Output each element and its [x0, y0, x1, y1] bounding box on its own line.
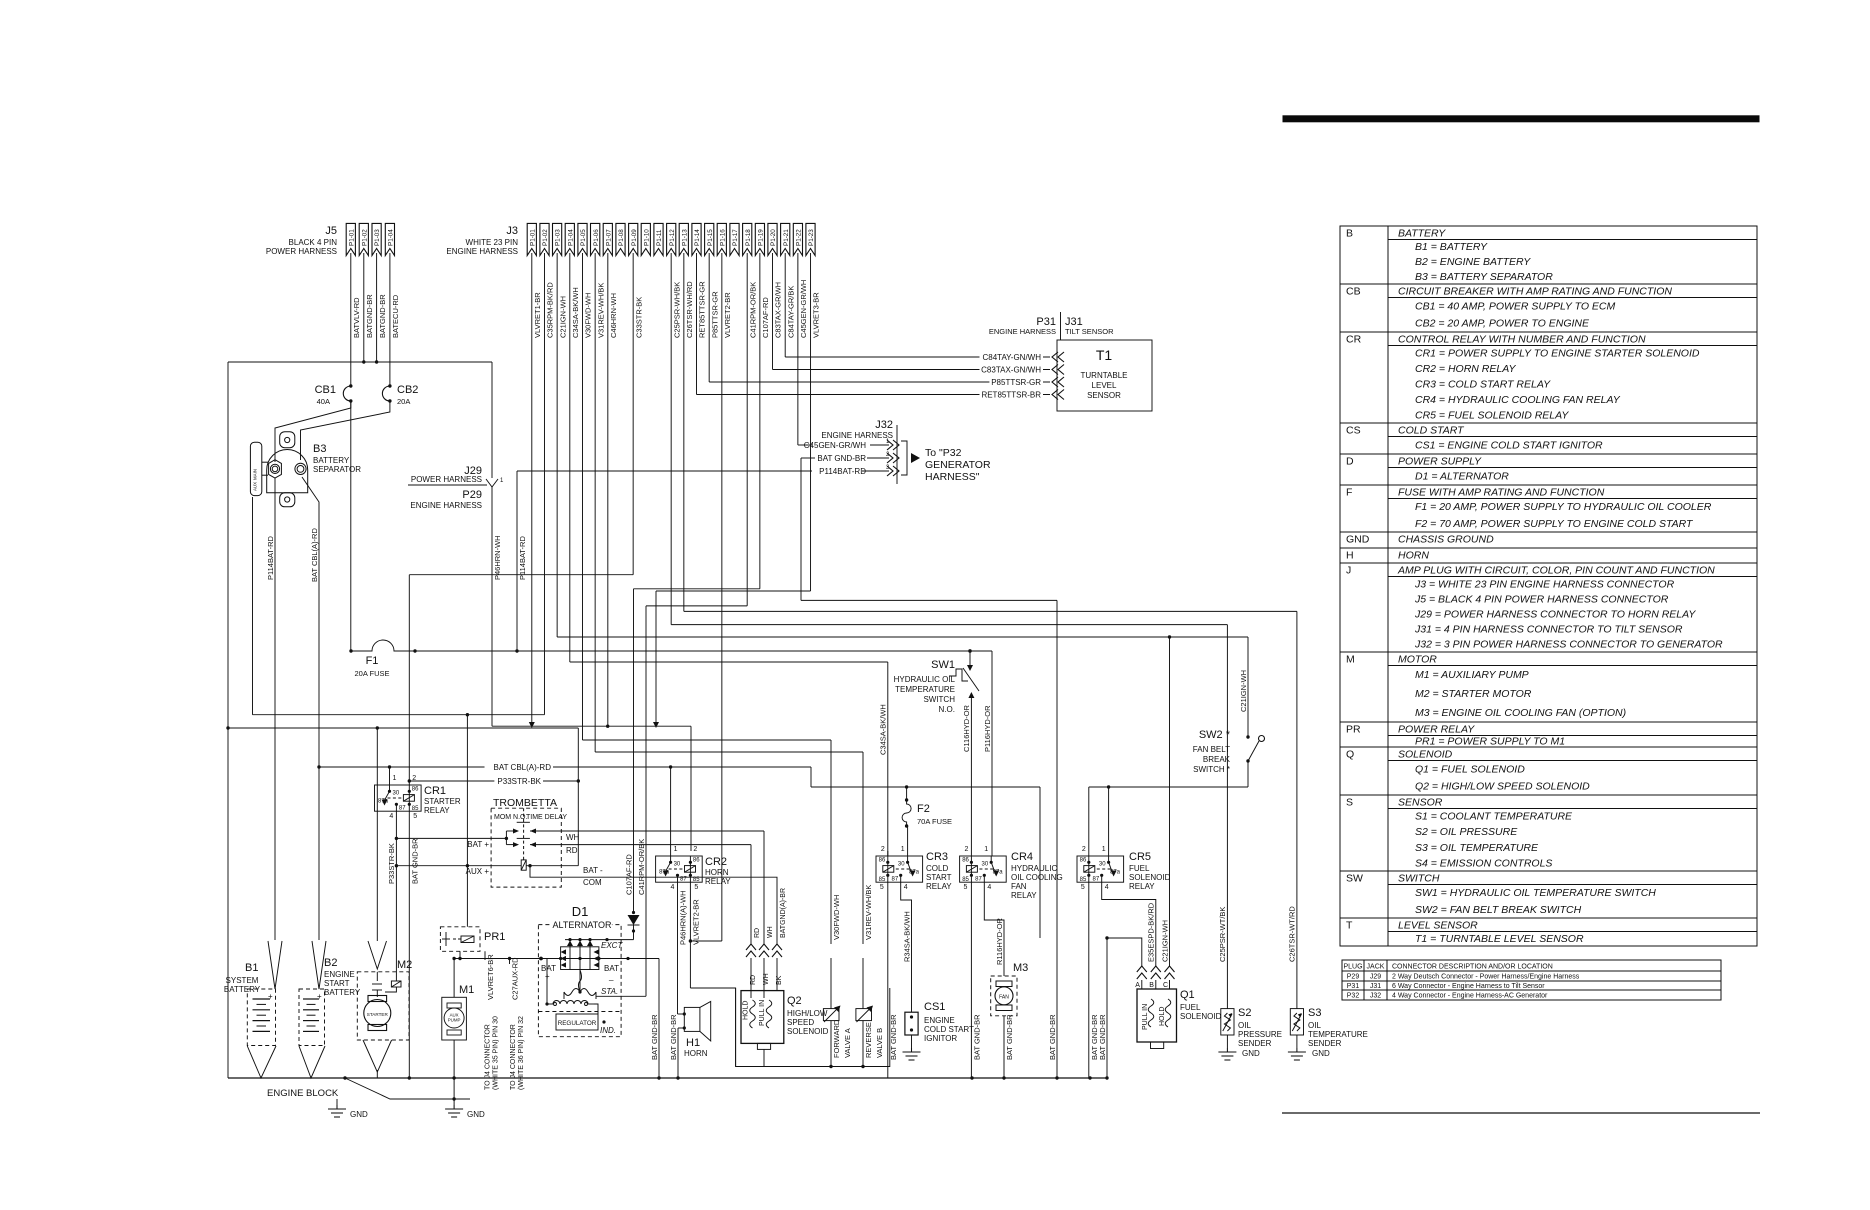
P31/J31 divider [1060, 312, 1062, 340]
svg-text:B1: B1 [245, 962, 258, 974]
wire CR5 pin5 to bus [1088, 882, 1090, 1078]
svg-text:WH: WH [566, 833, 580, 842]
svg-text:STA.: STA. [601, 987, 618, 996]
svg-text:To "P32: To "P32 [925, 447, 962, 459]
svg-text:S3 = OIL TEMPERATURE: S3 = OIL TEMPERATURE [1415, 842, 1539, 854]
svg-text:C41RPM-OR/BK: C41RPM-OR/BK [637, 839, 646, 895]
svg-text:P116HYD-OR: P116HYD-OR [983, 705, 992, 752]
harness chevrons RD WH BK [746, 944, 756, 950]
svg-text:FAN: FAN [999, 995, 1009, 1001]
cold start ignitor CS1 [905, 1012, 918, 1035]
sender S2 [1221, 1009, 1234, 1035]
svg-text:1: 1 [901, 846, 905, 853]
svg-text:P114BAT-RD: P114BAT-RD [819, 467, 866, 476]
wire left vertical to ground bus [227, 362, 229, 1078]
svg-text:C45GEN-GR/WH: C45GEN-GR/WH [804, 441, 866, 450]
svg-text:R34SA-BK/WH: R34SA-BK/WH [902, 911, 911, 962]
wire C83TAX-GN/WH to T1 [772, 253, 774, 370]
svg-text:C: C [1163, 982, 1168, 989]
svg-text:C34SA-BK/WH: C34SA-BK/WH [879, 704, 888, 755]
svg-text:D: D [1346, 456, 1354, 468]
svg-text:85: 85 [412, 806, 419, 812]
svg-text:5: 5 [963, 884, 967, 891]
wire F1 to SW1/CR4 (C107/P116 feed) [415, 650, 992, 652]
svg-text:BATTERY: BATTERY [313, 456, 350, 465]
svg-text:CB2 = 20 AMP, POWER TO ENGINE: CB2 = 20 AMP, POWER TO ENGINE [1415, 318, 1590, 330]
svg-text:20A FUSE: 20A FUSE [354, 669, 389, 678]
svg-text:P1-07: P1-07 [605, 229, 612, 246]
wire BAT to F2 area [810, 767, 812, 787]
svg-text:85: 85 [962, 877, 969, 883]
svg-text:C35RPM-BK/RD: C35RPM-BK/RD [546, 282, 555, 338]
svg-text:B: B [1149, 982, 1154, 989]
J32 bracket [901, 441, 907, 475]
svg-text:30: 30 [393, 790, 400, 796]
svg-text:MOTOR: MOTOR [1398, 654, 1437, 666]
wire J5-3 drop [376, 253, 378, 362]
J5 pin P1-01 [346, 223, 355, 255]
svg-text:HORN: HORN [684, 1049, 708, 1058]
wire J5-2 drop [363, 253, 365, 362]
svg-text:BAT GND-BR: BAT GND-BR [1098, 1014, 1107, 1060]
J32 wire C45GEN-GR/WH [887, 440, 893, 450]
wire C33STR-BK (p9) to CR1 coil [632, 253, 634, 575]
svg-text:86: 86 [1080, 857, 1087, 863]
svg-text:IGNITOR: IGNITOR [924, 1034, 957, 1043]
J3 pin P1-20 [768, 223, 777, 255]
svg-text:HORN: HORN [1398, 550, 1429, 562]
svg-text:COLD: COLD [926, 864, 948, 873]
svg-text:SWITCH: SWITCH [1398, 873, 1440, 885]
svg-text:CIRCUIT BREAKER WITH AMP RATIN: CIRCUIT BREAKER WITH AMP RATING AND FUNC… [1398, 286, 1672, 298]
svg-text:C107AF-RD: C107AF-RD [624, 854, 633, 895]
AUX+ wire [396, 865, 521, 867]
wire CR5 pin1 up [1108, 787, 1110, 856]
svg-text:J29 = POWER HARNESS CONNECTOR: J29 = POWER HARNESS CONNECTOR TO HORN RE… [1414, 608, 1696, 620]
wire CB1 down to F1 line [350, 401, 352, 651]
svg-text:GND: GND [350, 1110, 368, 1119]
svg-text:VLVRET2-BR: VLVRET2-BR [723, 292, 732, 338]
svg-text:CR1 = POWER SUPPLY TO ENGINE S: CR1 = POWER SUPPLY TO ENGINE STARTER SOL… [1415, 347, 1700, 359]
contact bracket [505, 831, 507, 845]
svg-text:BATGND(A)-BR: BATGND(A)-BR [780, 888, 787, 938]
motor M2 starter [357, 972, 409, 1040]
svg-text:P1-06: P1-06 [593, 229, 600, 246]
wire M1 feed [453, 959, 455, 998]
svg-text:AMP PLUG WITH CIRCUIT, COLOR,: AMP PLUG WITH CIRCUIT, COLOR, PIN COUNT … [1397, 565, 1715, 577]
J3 pin P1-21 [781, 223, 790, 255]
svg-text:CR1: CR1 [424, 785, 446, 797]
svg-text:CONNECTOR DESCRIPTION AND/OR L: CONNECTOR DESCRIPTION AND/OR LOCATION [1392, 964, 1553, 971]
wire down to CR2 pin2 [690, 726, 692, 851]
BAT+ wire [396, 837, 506, 839]
wire down to TROMBETTA BAT- [577, 728, 579, 866]
svg-text:M1 = AUXILIARY PUMP: M1 = AUXILIARY PUMP [1415, 669, 1529, 681]
wire R34SA-BK/WH to CS1 [901, 882, 912, 1012]
wire P114BAT-RD to J32 [517, 470, 812, 472]
svg-text:GND: GND [1242, 1049, 1260, 1058]
svg-text:SYSTEM: SYSTEM [226, 976, 259, 985]
svg-text:P1-01: P1-01 [348, 229, 355, 246]
svg-text:FUEL: FUEL [1129, 864, 1150, 873]
svg-text:P1-22: P1-22 [796, 229, 803, 246]
arrow to generator harness [911, 453, 920, 463]
solenoid Q1 fuel [1137, 989, 1177, 1042]
svg-text:SWITCH: SWITCH [923, 695, 955, 704]
svg-text:CR4 = HYDRAULIC COOLING FAN RE: CR4 = HYDRAULIC COOLING FAN RELAY [1415, 394, 1621, 406]
svg-text:J: J [1346, 565, 1351, 577]
circuit breaker CB1 [350, 253, 352, 386]
J3 pin P1-02 [540, 223, 549, 255]
svg-text:R116HYD-OR: R116HYD-OR [995, 917, 1004, 965]
svg-text:CHASSIS GROUND: CHASSIS GROUND [1398, 534, 1494, 546]
svg-text:V31REV-WH/BK: V31REV-WH/BK [864, 885, 873, 940]
svg-text:D1 = ALTERNATOR: D1 = ALTERNATOR [1415, 470, 1509, 482]
tilt sensor T1 [1057, 340, 1152, 411]
wire M1 to GND [453, 1040, 455, 1105]
svg-text:S1 = COOLANT TEMPERATURE: S1 = COOLANT TEMPERATURE [1415, 811, 1573, 823]
svg-text:M3 = ENGINE OIL COOLING FAN (O: M3 = ENGINE OIL COOLING FAN (OPTION) [1415, 707, 1626, 719]
wire VLVRET1-BR (p1) down to L728 [531, 253, 533, 722]
svg-text:SW1 = HYDRAULIC OIL TEMPERATUR: SW1 = HYDRAULIC OIL TEMPERATURE SWITCH [1415, 887, 1656, 899]
svg-text:GND: GND [1312, 1049, 1330, 1058]
wire starter feed [376, 728, 378, 941]
svg-text:M2: M2 [397, 959, 412, 971]
wire CB1 to B3 MAIN [275, 401, 351, 462]
svg-text:C45GEN-GR/WH: C45GEN-GR/WH [799, 280, 808, 338]
svg-text:P1-04: P1-04 [388, 229, 395, 246]
svg-text:70A FUSE: 70A FUSE [917, 817, 952, 826]
svg-text:CR2: CR2 [705, 856, 727, 868]
J32 wire P114BAT-RD [887, 466, 893, 476]
svg-text:30: 30 [1099, 861, 1106, 867]
wire to PR1 coil [466, 715, 468, 927]
svg-text:6 Way Connector - Engine Harne: 6 Way Connector - Engine Harness to Tilt… [1392, 983, 1545, 990]
svg-text:COLD START: COLD START [1398, 425, 1465, 437]
stator winding [579, 970, 581, 993]
chevron B1 [268, 941, 282, 989]
svg-text:PUMP: PUMP [448, 1018, 461, 1023]
svg-text:VALVE A: VALVE A [843, 1028, 852, 1058]
svg-text:V30FWD-WH: V30FWD-WH [584, 293, 593, 338]
svg-text:F2: F2 [917, 803, 930, 815]
wire PR1 to BAT+ line [459, 951, 461, 958]
svg-text:S4 = EMISSION CONTROLS: S4 = EMISSION CONTROLS [1415, 857, 1552, 869]
svg-text:B3 = BATTERY SEPARATOR: B3 = BATTERY SEPARATOR [1415, 271, 1553, 283]
wire VLVRET3-BR (p23) down to L728 [810, 253, 812, 591]
starter motor circle [364, 1000, 391, 1027]
svg-text:P29: P29 [1347, 974, 1360, 981]
Q1 pin chevrons A B C [1137, 966, 1147, 972]
J3 pin P1-10 [641, 223, 650, 255]
svg-text:(WHITE 36 PIN) PIN 32: (WHITE 36 PIN) PIN 32 [518, 1016, 525, 1090]
svg-text:N.O.: N.O. [939, 705, 955, 714]
svg-text:VLVRET6-BR: VLVRET6-BR [486, 954, 495, 1000]
svg-text:P1-17: P1-17 [732, 229, 739, 246]
svg-text:VLVRET1-BR: VLVRET1-BR [533, 292, 542, 338]
J3 pin P1-15 [705, 223, 714, 255]
svg-text:HARNESS": HARNESS" [925, 471, 980, 483]
wire V31REV-WH/BK (p6) to reverse valve [594, 253, 596, 752]
svg-text:MAIN: MAIN [253, 469, 258, 480]
svg-text:BAT GND-BR: BAT GND-BR [1048, 1014, 1057, 1060]
svg-text:CB: CB [1346, 286, 1361, 298]
svg-text:P1-18: P1-18 [745, 229, 752, 246]
wire VLVRET2 to Q2 loop [690, 988, 735, 1067]
svg-text:HYDRAULIC: HYDRAULIC [1011, 864, 1057, 873]
EXCT bus [565, 939, 634, 941]
svg-text:TILT SENSOR: TILT SENSOR [1065, 327, 1114, 336]
svg-text:PR1 = POWER SUPPLY TO M1: PR1 = POWER SUPPLY TO M1 [1415, 735, 1565, 747]
chevron above M2 [368, 941, 387, 969]
svg-text:CR3 = COLD START RELAY: CR3 = COLD START RELAY [1415, 378, 1551, 390]
svg-text:STARTER: STARTER [424, 797, 461, 806]
svg-text:M3: M3 [1013, 962, 1028, 974]
wire horn bottom [678, 1027, 684, 1029]
svg-text:1: 1 [674, 846, 678, 853]
J5 pin P1-03 [372, 223, 381, 255]
wire STA [596, 995, 646, 997]
svg-text:B: B [1346, 228, 1353, 240]
svg-text:F: F [1346, 487, 1352, 499]
svg-text:4: 4 [671, 884, 675, 891]
wire CR2 pin5 VLVRET2-BR [689, 882, 691, 988]
svg-text:ENGINE: ENGINE [924, 1016, 955, 1025]
J3 pin P1-05 [578, 223, 587, 255]
svg-text:P1-03: P1-03 [555, 229, 562, 246]
wire C107AF-RD (p19) to D1 EXCT diode [759, 253, 761, 589]
svg-text:BATTERY: BATTERY [1398, 228, 1446, 240]
svg-text:S2: S2 [1238, 1007, 1251, 1019]
L600 BAT GND-BR to bus [801, 599, 1057, 601]
wire BAT CBL(A)-RD B3 to B2 [302, 477, 319, 940]
svg-text:GENERATOR: GENERATOR [925, 459, 991, 471]
svg-text:J32: J32 [1370, 993, 1381, 1000]
J3 pin P1-16 [717, 223, 726, 255]
svg-text:CR5: CR5 [1129, 851, 1151, 863]
svg-text:C83TAX-GN/WH: C83TAX-GN/WH [981, 366, 1041, 375]
svg-text:MOM N.O.: MOM N.O. [494, 814, 527, 821]
svg-text:RD: RD [566, 846, 578, 855]
wire CR1 pin1 to BAT CBL [389, 767, 391, 785]
svg-text:C83TAX-GR/WH: C83TAX-GR/WH [774, 282, 783, 338]
wire from L362 to J29 [491, 362, 493, 478]
svg-text:5: 5 [694, 884, 698, 891]
svg-text:P85TTSR-GR: P85TTSR-GR [991, 378, 1041, 387]
svg-text:SWITCH *: SWITCH * [1193, 765, 1230, 774]
svg-text:RD: RD [754, 928, 761, 938]
engine block line [345, 1078, 470, 1099]
svg-text:4: 4 [904, 884, 908, 891]
starter solenoid coil [391, 981, 401, 987]
svg-text:5: 5 [1081, 884, 1085, 891]
svg-text:TEMPERATURE: TEMPERATURE [1308, 1030, 1368, 1039]
svg-text:P1-08: P1-08 [618, 229, 625, 246]
J3 pin P1-19 [755, 223, 764, 255]
svg-text:H1: H1 [686, 1037, 700, 1049]
svg-text:CS1: CS1 [924, 1001, 945, 1013]
svg-text:SOLENOID: SOLENOID [1129, 873, 1171, 882]
svg-text:BAT GND-BR: BAT GND-BR [411, 838, 420, 884]
wire C116HYD-OR from SW1 [970, 693, 972, 856]
fuse F1 20A [351, 640, 415, 651]
svg-text:FUSE WITH AMP RATING AND FUNCT: FUSE WITH AMP RATING AND FUNCTION [1398, 487, 1605, 499]
Q2 bottom loop [736, 988, 890, 1067]
svg-text:PULL IN: PULL IN [759, 1000, 766, 1026]
chevron below B1 [247, 1046, 276, 1078]
svg-text:P1-20: P1-20 [770, 229, 777, 246]
svg-text:4 Way Connector - Engine Harne: 4 Way Connector - Engine Harness-AC Gene… [1392, 993, 1548, 1000]
wire R116HYD-OR to M3 [984, 882, 1004, 976]
svg-text:J5 = BLACK 4 PIN POWER HARNESS: J5 = BLACK 4 PIN POWER HARNESS CONNECTOR [1414, 593, 1669, 605]
chevron below B2 [299, 1046, 325, 1078]
svg-text:C25PSR-WH/BK: C25PSR-WH/BK [672, 282, 681, 338]
reverse valve B [856, 1009, 872, 1021]
svg-text:TROMBETTA: TROMBETTA [493, 797, 557, 809]
svg-text:F1 = 20 AMP, POWER SUPPLY TO H: F1 = 20 AMP, POWER SUPPLY TO HYDRAULIC O… [1415, 501, 1712, 513]
svg-text:C27AUX-RD: C27AUX-RD [511, 957, 520, 1000]
svg-text:T1: T1 [1096, 347, 1113, 363]
regulator [545, 1002, 548, 1005]
svg-text:P1-10: P1-10 [643, 229, 650, 246]
svg-text:85: 85 [879, 877, 886, 883]
svg-text:P1-21: P1-21 [783, 229, 790, 246]
svg-text:P1-02: P1-02 [542, 229, 549, 246]
svg-text:2: 2 [1082, 846, 1086, 853]
wire BATGND bus L362 [228, 361, 492, 363]
svg-text:RET85TTSR-BR: RET85TTSR-BR [981, 391, 1041, 400]
J29 arrow [486, 479, 498, 487]
svg-text:1: 1 [984, 846, 988, 853]
svg-text:T: T [1346, 920, 1353, 932]
J3 pin P1-12 [667, 223, 676, 255]
svg-text:P1-19: P1-19 [758, 229, 765, 246]
ground bus [228, 1077, 1107, 1079]
circuit breaker CB2 [389, 253, 391, 386]
svg-text:OIL: OIL [1238, 1021, 1251, 1030]
svg-text:RELAY: RELAY [1129, 882, 1155, 891]
svg-text:SOLENOID: SOLENOID [1398, 749, 1453, 761]
relay CR5 fuel solenoid relay [1077, 856, 1124, 882]
svg-text:VALVE B: VALVE B [875, 1028, 884, 1058]
svg-text:GND: GND [467, 1110, 485, 1119]
ground M1 [445, 1105, 463, 1117]
svg-text:RELAY: RELAY [1011, 891, 1037, 900]
svg-text:20A: 20A [397, 397, 410, 406]
svg-text:COLD START: COLD START [924, 1025, 974, 1034]
svg-text:2: 2 [881, 846, 885, 853]
svg-text:JACK: JACK [1367, 964, 1385, 971]
wire V30FWD-WH (p5) to forward valve [581, 253, 583, 740]
svg-text:C33STR-BK: C33STR-BK [634, 297, 643, 338]
svg-text:BATTERY: BATTERY [224, 985, 261, 994]
svg-text:CS1 = ENGINE COLD START IGNITO: CS1 = ENGINE COLD START IGNITOR [1415, 439, 1603, 451]
svg-text:P1-02: P1-02 [361, 229, 368, 246]
svg-text:C25PSR-WT/BK: C25PSR-WT/BK [1218, 907, 1227, 962]
wire C41RPM-OR/BK (p18) to D1 STA [746, 253, 748, 606]
svg-text:86: 86 [693, 857, 700, 863]
wire Q1 A to ground [1107, 938, 1142, 966]
svg-text:T1 = TURNTABLE LEVEL SENSOR: T1 = TURNTABLE LEVEL SENSOR [1415, 933, 1584, 945]
wire C34SA to CR3 pin2 [887, 851, 889, 856]
svg-text:P1-04: P1-04 [567, 229, 574, 246]
svg-text:PR: PR [1346, 724, 1361, 736]
svg-text:S2 = OIL PRESSURE: S2 = OIL PRESSURE [1415, 826, 1518, 838]
svg-text:P1-16: P1-16 [719, 229, 726, 246]
ground CS1 [903, 1048, 921, 1060]
sender S3 [1290, 1009, 1303, 1035]
svg-text:+: + [545, 972, 550, 981]
svg-text:HYDRAULIC OIL: HYDRAULIC OIL [894, 675, 956, 684]
svg-text:LEVEL SENSOR: LEVEL SENSOR [1398, 920, 1478, 932]
svg-text:Q2: Q2 [787, 995, 802, 1007]
svg-text:S3: S3 [1308, 1007, 1321, 1019]
svg-text:P1-09: P1-09 [631, 229, 638, 246]
L728 ground return line [228, 727, 578, 729]
fuse F2 70A [902, 800, 911, 826]
wire P114BAT-RD down to F1 line [516, 471, 518, 651]
svg-text:P46HRN-WH: P46HRN-WH [493, 535, 502, 580]
svg-text:BAT GND-BR: BAT GND-BR [889, 1014, 898, 1060]
J3 pin P1-18 [743, 223, 752, 255]
svg-text:P1-23: P1-23 [808, 229, 815, 246]
svg-text:P32: P32 [1347, 993, 1360, 1000]
ground engine block [328, 1105, 346, 1117]
wire CR1 pin4 to starter solenoid [395, 811, 397, 981]
svg-text:RET85TTSR-GR: RET85TTSR-GR [698, 281, 707, 338]
svg-text:J5: J5 [325, 225, 337, 237]
svg-text:C21IGN-WH: C21IGN-WH [1160, 920, 1169, 962]
svg-text:C84TAY-GR/BK: C84TAY-GR/BK [786, 286, 795, 338]
svg-text:C26TSR-WT/RD: C26TSR-WT/RD [1288, 906, 1297, 962]
stub [887, 851, 889, 856]
svg-text:M2 = STARTER MOTOR: M2 = STARTER MOTOR [1415, 688, 1532, 700]
svg-text:P33STR-BK: P33STR-BK [497, 777, 541, 786]
svg-text:85: 85 [693, 877, 700, 883]
RD wire [530, 842, 536, 847]
svg-text:30: 30 [982, 861, 989, 867]
svg-text:C26TSR-WH/RD: C26TSR-WH/RD [685, 281, 694, 338]
J3 pin P1-06 [591, 223, 600, 255]
svg-text:Q1: Q1 [1180, 989, 1195, 1001]
svg-text:87: 87 [892, 876, 899, 882]
svg-text:BAT -: BAT - [583, 866, 603, 875]
svg-text:A: A [1135, 982, 1140, 989]
svg-text:ENGINE HARNESS: ENGINE HARNESS [410, 501, 482, 510]
svg-text:BAT GND-BR: BAT GND-BR [650, 1014, 659, 1060]
svg-text:4: 4 [389, 813, 393, 820]
svg-text:P1-14: P1-14 [694, 229, 701, 246]
relay CR3 cold start relay [876, 856, 923, 882]
J3 pin P1-03 [553, 223, 562, 255]
wire CR5 pin2 up [1088, 787, 1090, 856]
J32 connector body line [896, 425, 898, 484]
svg-text:M1: M1 [459, 984, 474, 996]
svg-text:J31 = 4 PIN HARNESS CONNECTOR: J31 = 4 PIN HARNESS CONNECTOR TO TILT SE… [1414, 624, 1683, 636]
svg-text:SW1: SW1 [931, 659, 955, 671]
solenoid coil [521, 860, 526, 870]
svg-text:VLVRET3-BR: VLVRET3-BR [812, 292, 821, 338]
svg-text:30: 30 [898, 861, 905, 867]
wire RET85TTSR-BR to T1 [696, 253, 698, 395]
wire stubs to J4 connector [484, 951, 486, 960]
svg-text:5: 5 [880, 884, 884, 891]
wire P114BAT-RD B3 to B1 [274, 478, 276, 940]
svg-text:C34SA-BK/WH: C34SA-BK/WH [571, 287, 580, 338]
wire C21IGN-WH (p3) staircase to Q1/SW2 [556, 253, 558, 637]
svg-text:HOLD: HOLD [743, 1001, 750, 1020]
svg-text:86: 86 [879, 857, 886, 863]
